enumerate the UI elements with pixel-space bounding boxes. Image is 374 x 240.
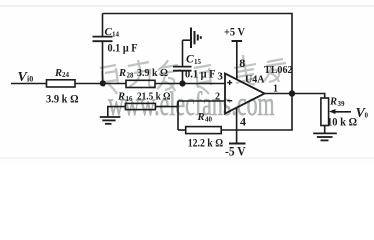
svg-text:2: 2 <box>215 92 220 103</box>
node output junction dot <box>289 90 295 96</box>
resistor R16 body <box>125 103 155 109</box>
svg-text:15: 15 <box>194 58 202 66</box>
wire op-amp output <box>265 94 325 99</box>
op-amp plus sign <box>227 80 232 85</box>
svg-text:-5 V: -5 V <box>225 145 246 159</box>
svg-text:U4A: U4A <box>245 75 265 86</box>
svg-text:R: R <box>118 68 126 79</box>
svg-text:0.1 μ F: 0.1 μ F <box>185 69 216 81</box>
svg-text:i0: i0 <box>27 75 33 84</box>
capacitor C14 leads <box>102 41 104 83</box>
resistor R24 body <box>47 80 76 87</box>
scan edge shading bottom <box>0 158 374 159</box>
wire pin2 input <box>178 100 225 102</box>
watermark chinese glyph 5 <box>234 55 256 84</box>
svg-text:R: R <box>54 68 62 79</box>
svg-text:3.9 k Ω: 3.9 k Ω <box>137 67 168 79</box>
resistor R39 body <box>321 98 329 126</box>
wire R28 to op-amp pin 3 <box>155 83 225 85</box>
svg-text:28: 28 <box>127 72 135 80</box>
wire R16 right up to pin2 net <box>155 101 178 107</box>
V0 arrow head <box>329 109 336 114</box>
svg-text:39: 39 <box>338 100 346 108</box>
wire pin2 down to R40 <box>177 101 179 130</box>
svg-text:0: 0 <box>365 112 369 120</box>
ground left bars <box>100 116 121 118</box>
svg-text:40: 40 <box>205 116 213 124</box>
svg-text:24: 24 <box>62 71 70 79</box>
svg-text:R: R <box>197 112 205 123</box>
svg-text:0.1 μ F: 0.1 μ F <box>108 43 138 55</box>
op-amp minus sign <box>227 100 232 102</box>
capacitor C14 plates <box>93 40 113 42</box>
ground rotated bars <box>190 28 192 49</box>
V0 arrow shaft <box>333 111 351 113</box>
svg-text:R: R <box>117 92 125 103</box>
wire top feedback <box>103 14 293 94</box>
wire R39 bottom to ground <box>324 126 326 134</box>
svg-text:R: R <box>329 97 337 108</box>
wire input <box>11 83 47 85</box>
watermark chinese glyph 2 <box>128 60 155 87</box>
svg-text:8: 8 <box>239 56 245 70</box>
svg-text:TL062: TL062 <box>264 65 293 76</box>
svg-text:12.2 k Ω: 12.2 k Ω <box>188 136 224 150</box>
node B junction dot <box>179 80 185 86</box>
svg-text:www.elecfans.com: www.elecfans.com <box>108 87 275 124</box>
resistor R40 body <box>186 127 222 134</box>
svg-text:C: C <box>186 54 194 66</box>
svg-text:10 k Ω: 10 k Ω <box>327 115 357 129</box>
node A junction dot <box>100 80 106 86</box>
op-amp U4A triangle <box>225 74 265 114</box>
wire R40 left <box>178 129 186 131</box>
svg-text:+5 V: +5 V <box>224 25 245 39</box>
watermark www.elecfans.com <box>108 87 275 124</box>
watermark chinese glyph 3 <box>157 60 181 91</box>
op-amp pin 8 lead <box>236 41 238 79</box>
wire R16 left to ground stem <box>108 107 125 117</box>
svg-text:1: 1 <box>273 84 278 95</box>
wire R24 to node A <box>75 83 126 85</box>
svg-text:21.5 k Ω: 21.5 k Ω <box>137 91 171 103</box>
scan edge shading top <box>0 6 374 7</box>
+5V rail bar <box>232 40 243 42</box>
capacitor C15 plates <box>173 70 192 72</box>
svg-text:3: 3 <box>217 71 223 83</box>
op-amp pin 4 lead <box>236 107 238 143</box>
ground right bars <box>313 132 337 134</box>
svg-text:14: 14 <box>112 31 120 39</box>
watermark chinese glyph 1 <box>100 65 118 94</box>
wire R40 right feedback to output <box>221 94 292 131</box>
-5V rail bar <box>229 143 246 145</box>
watermark chinese glyph 6 <box>264 59 286 82</box>
watermark chinese glyph 4 <box>194 65 211 94</box>
svg-text:4: 4 <box>240 115 246 129</box>
resistor R28 body <box>126 80 155 87</box>
svg-text:3.9 k Ω: 3.9 k Ω <box>46 92 79 106</box>
capacitor C15 leads <box>182 71 184 84</box>
svg-text:16: 16 <box>126 95 134 103</box>
wire C15 to rotated ground <box>183 39 191 41</box>
